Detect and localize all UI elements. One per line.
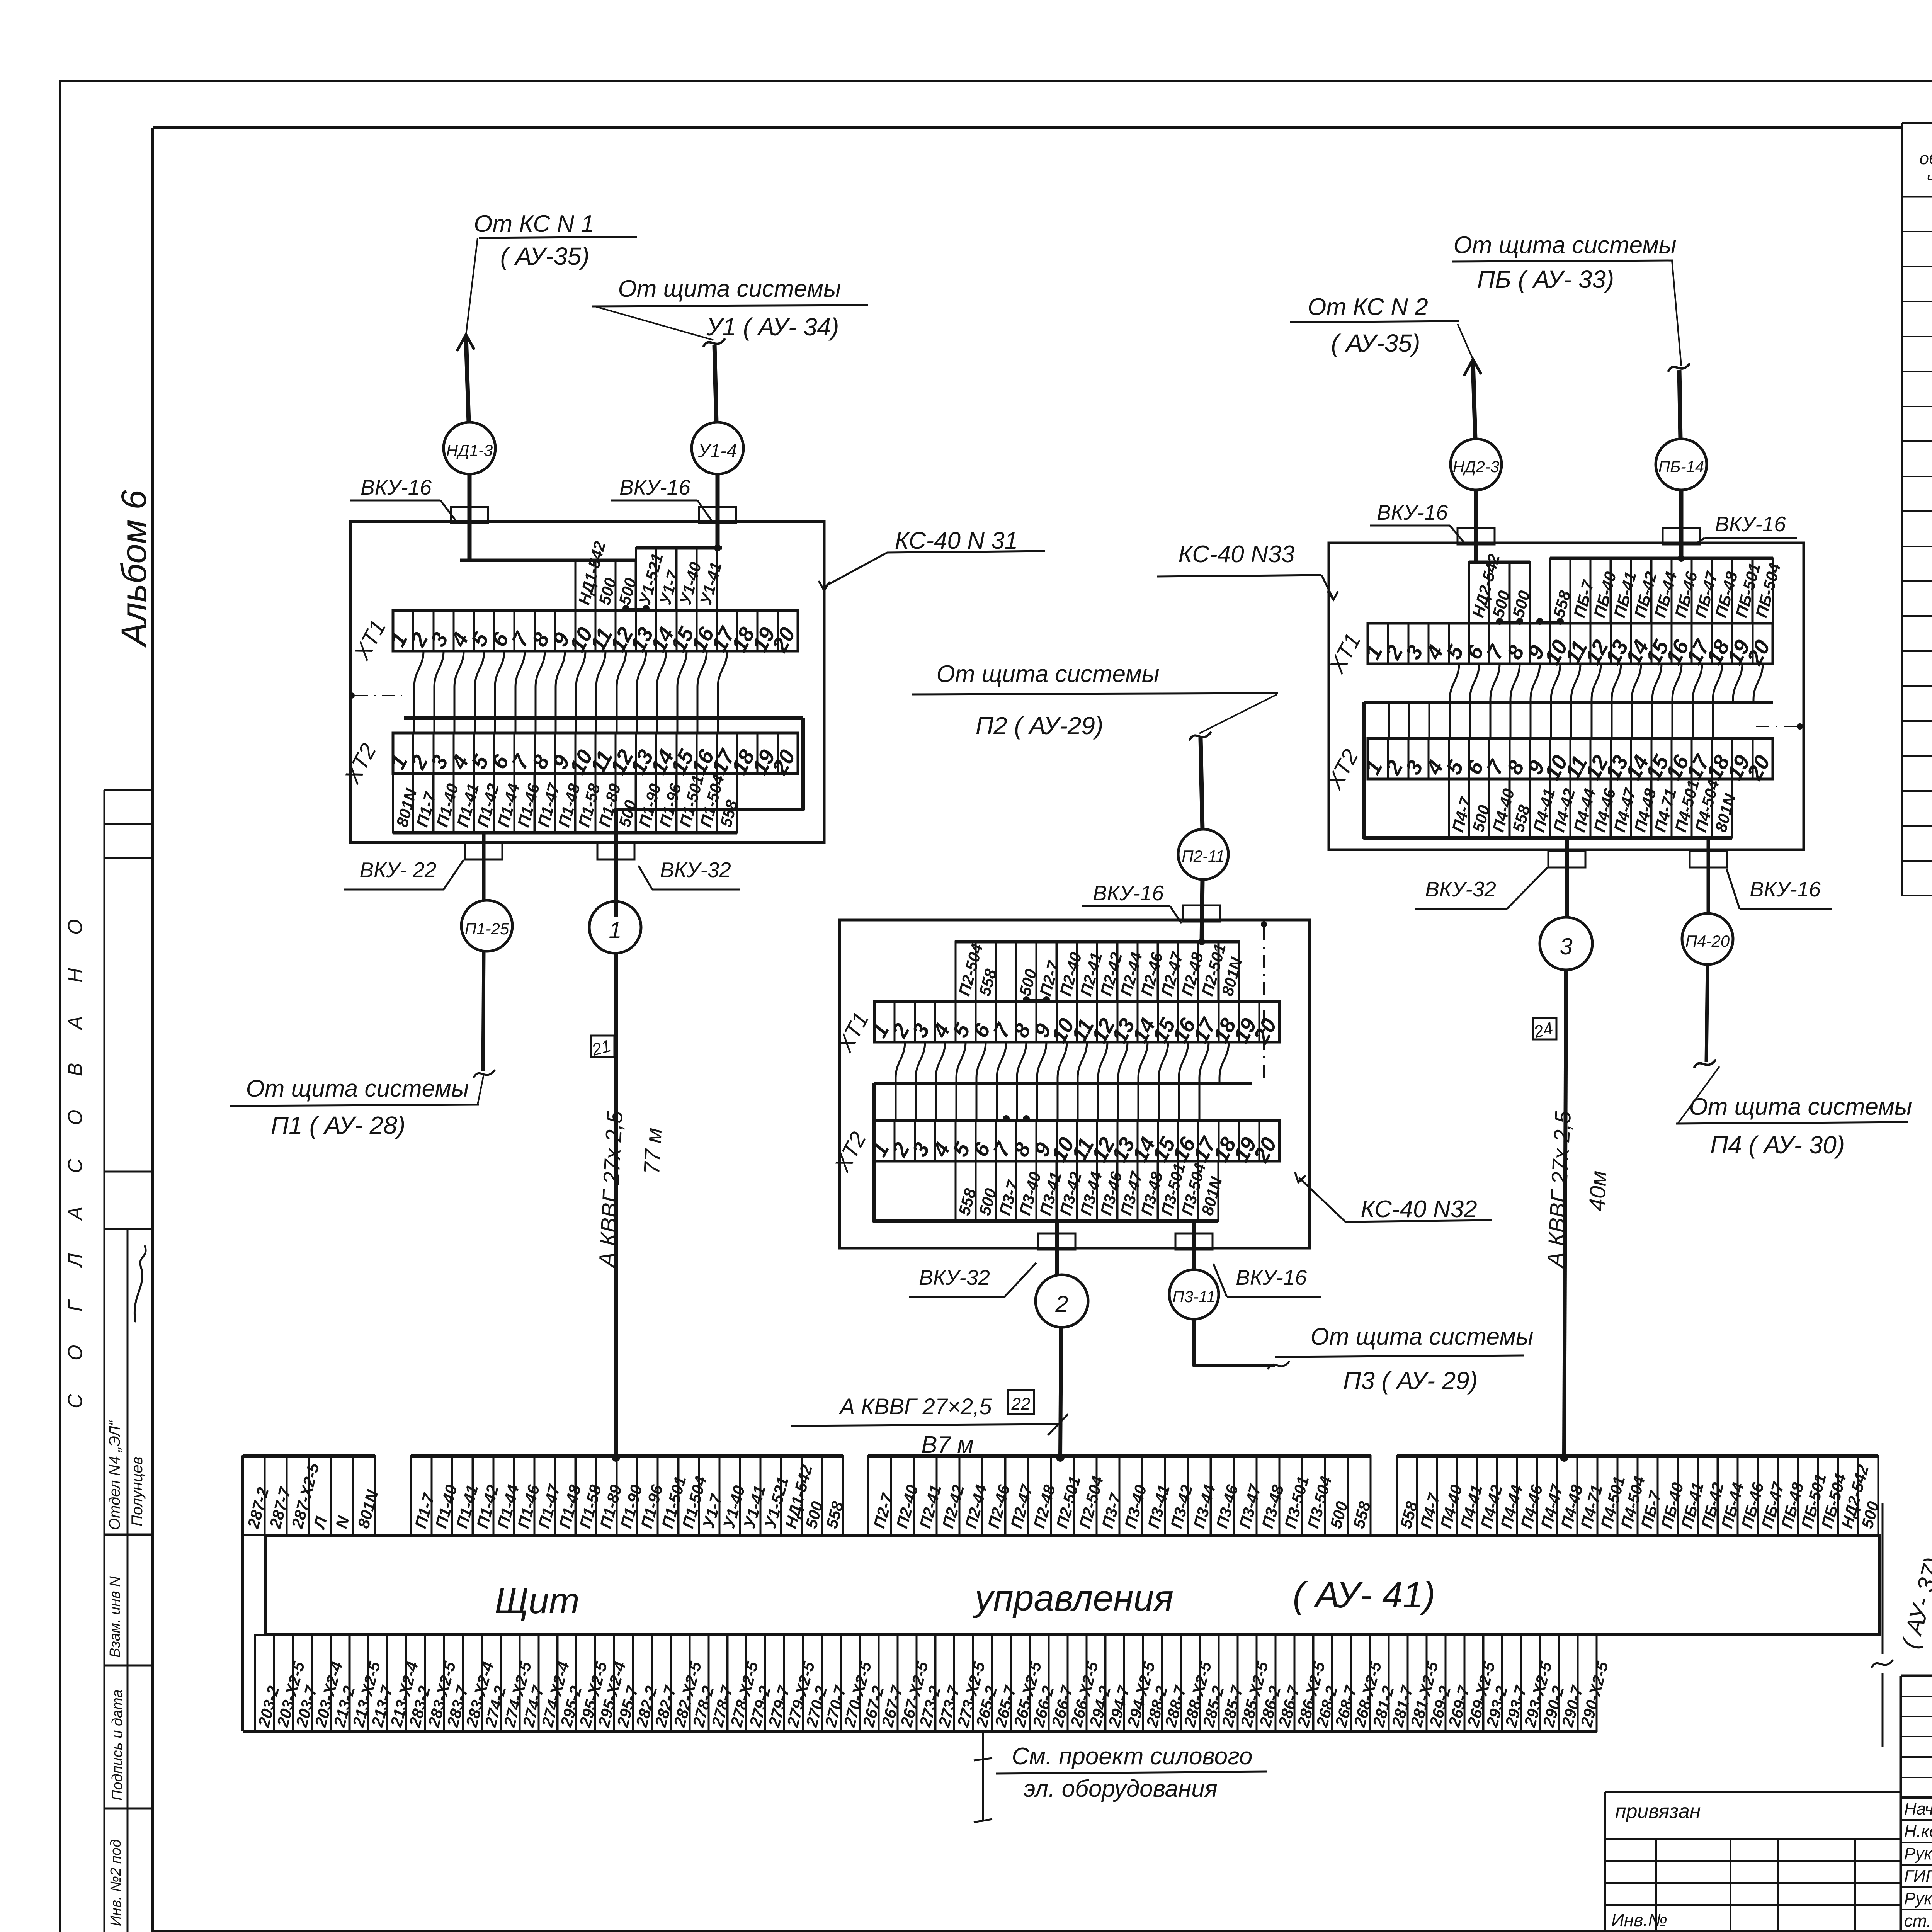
svg-text:П4-20: П4-20 — [1685, 932, 1730, 950]
svg-text:А КВВГ 27×2,5: А КВВГ 27×2,5 — [838, 1394, 992, 1419]
svg-text:ВКУ-16: ВКУ-16 — [1750, 877, 1821, 901]
svg-text:П2 ( АУ-29): П2 ( АУ-29) — [976, 712, 1104, 740]
svg-text:П3 ( АУ- 29): П3 ( АУ- 29) — [1343, 1367, 1478, 1395]
svg-text:С О Г Л А С О В А Н О: С О Г Л А С О В А Н О — [64, 905, 87, 1408]
svg-text:чение: чение — [1927, 168, 1932, 187]
svg-text:77 м: 77 м — [639, 1127, 667, 1175]
svg-text:От щита системы: От щита системы — [618, 276, 841, 302]
svg-text:От щита системы: От щита системы — [1310, 1323, 1533, 1350]
svg-text:эл. оборудования: эл. оборудования — [1024, 1776, 1218, 1802]
svg-text:От щита системы: От щита системы — [246, 1075, 469, 1102]
svg-text:От щита системы: От щита системы — [1453, 232, 1676, 259]
svg-text:От КС N 1: От КС N 1 — [474, 211, 594, 237]
svg-text:У1-4: У1-4 — [698, 441, 737, 461]
svg-text:ПБ-14: ПБ-14 — [1658, 457, 1704, 476]
svg-text:ГИП: ГИП — [1904, 1867, 1932, 1886]
svg-text:Полунцев: Полунцев — [129, 1457, 146, 1526]
svg-text:От КС N 2: От КС N 2 — [1308, 294, 1428, 320]
svg-text:Альбом 6: Альбом 6 — [114, 490, 154, 648]
svg-text:( АУ-35): ( АУ-35) — [1331, 329, 1420, 357]
svg-text:Инв.№: Инв.№ — [1611, 1910, 1667, 1930]
svg-text:ВКУ-32: ВКУ-32 — [919, 1265, 990, 1289]
svg-text:( АУ-35): ( АУ-35) — [500, 242, 590, 270]
svg-text:Рук.сек.: Рук.сек. — [1904, 1844, 1932, 1863]
svg-text:обозна-: обозна- — [1920, 149, 1932, 168]
svg-text:ВКУ- 22: ВКУ- 22 — [359, 858, 436, 882]
svg-text:НД1-3: НД1-3 — [446, 441, 493, 459]
svg-text:КС-40 N33: КС-40 N33 — [1178, 541, 1294, 568]
svg-text:ВКУ-16: ВКУ-16 — [1093, 881, 1164, 905]
svg-text:От щита системы: От щита системы — [1689, 1094, 1912, 1120]
svg-text:ВКУ-16: ВКУ-16 — [1715, 512, 1786, 536]
svg-text:ВКУ-16: ВКУ-16 — [1236, 1265, 1307, 1289]
svg-text:В7 м: В7 м — [921, 1432, 974, 1458]
svg-text:40м: 40м — [1584, 1170, 1611, 1212]
svg-text:управления: управления — [973, 1578, 1173, 1619]
svg-text:ст.инж: ст.инж — [1904, 1912, 1932, 1930]
svg-text:Подпись и дата: Подпись и дата — [109, 1690, 126, 1801]
svg-text:П3-11: П3-11 — [1172, 1287, 1215, 1306]
svg-text:Отдел N4 „ЭЛ“: Отдел N4 „ЭЛ“ — [106, 1420, 123, 1530]
svg-text:У1 ( АУ- 34): У1 ( АУ- 34) — [706, 313, 839, 341]
svg-text:П1 ( АУ- 28): П1 ( АУ- 28) — [271, 1111, 405, 1139]
svg-text:1: 1 — [609, 917, 621, 943]
svg-text:КС-40 N32: КС-40 N32 — [1361, 1196, 1477, 1223]
svg-text:ВКУ-32: ВКУ-32 — [1425, 877, 1496, 901]
svg-text:См. проект силового: См. проект силового — [1012, 1743, 1253, 1770]
svg-text:Инв. №2 под: Инв. №2 под — [108, 1839, 124, 1926]
svg-text:НД2-3: НД2-3 — [1453, 457, 1500, 476]
svg-text:( АУ- 41): ( АУ- 41) — [1293, 1575, 1435, 1616]
svg-text:П2-11: П2-11 — [1182, 847, 1225, 865]
svg-text:ВКУ-16: ВКУ-16 — [1377, 500, 1448, 524]
svg-text:Щит: Щит — [495, 1580, 580, 1621]
svg-text:Взам. инв N: Взам. инв N — [107, 1576, 123, 1658]
svg-text:3: 3 — [1560, 934, 1572, 959]
svg-text:П1-25: П1-25 — [465, 920, 509, 938]
svg-text:ВКУ-16: ВКУ-16 — [619, 475, 690, 499]
svg-text:Н.контр.: Н.контр. — [1904, 1822, 1932, 1841]
svg-text:П4 ( АУ- 30): П4 ( АУ- 30) — [1710, 1131, 1845, 1159]
svg-text:Нач. отд.: Нач. отд. — [1904, 1799, 1932, 1818]
svg-text:От щита системы: От щита системы — [936, 661, 1159, 687]
svg-text:Рук.гр.: Рук.гр. — [1904, 1889, 1932, 1908]
svg-text:ПБ ( АУ- 33): ПБ ( АУ- 33) — [1477, 265, 1614, 293]
svg-text:2: 2 — [1055, 1291, 1068, 1317]
svg-text:22: 22 — [1011, 1395, 1031, 1413]
svg-text:ВКУ-32: ВКУ-32 — [660, 858, 731, 882]
svg-text:КС-40 N 31: КС-40 N 31 — [895, 527, 1018, 554]
svg-text:ВКУ-16: ВКУ-16 — [361, 475, 432, 499]
svg-text:привязан: привязан — [1615, 1800, 1701, 1823]
